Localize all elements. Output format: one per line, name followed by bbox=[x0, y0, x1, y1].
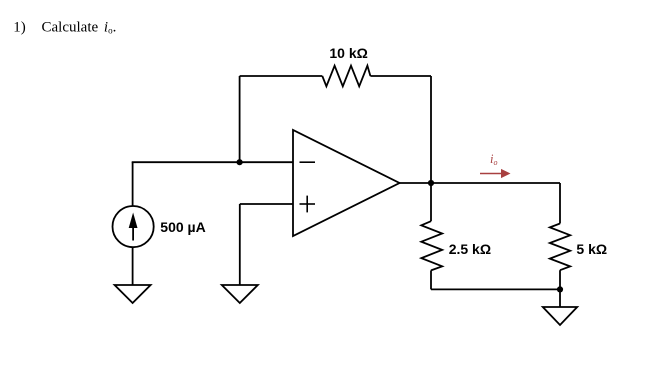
resistor 10 kΩ (feedback) bbox=[322, 66, 370, 87]
resistor 2.5 kΩ bbox=[421, 221, 442, 270]
wire: current source bottom lead bbox=[132, 247, 134, 285]
svg-text:1): 1) bbox=[13, 20, 26, 36]
op-amp U1 bbox=[293, 130, 400, 236]
wire: 2.5k top lead bbox=[430, 183, 432, 221]
wire: 2.5k bottom lead bbox=[430, 270, 432, 289]
problem text "1) Calculate io." bbox=[13, 20, 116, 36]
wire: inverting input horizontal bbox=[132, 161, 293, 163]
wire: top feedback right segment bbox=[370, 75, 431, 77]
wire: non-inverting input vertical to ground bbox=[239, 204, 241, 285]
wire: feedback left vertical bbox=[239, 76, 241, 162]
current label io (red) bbox=[480, 152, 511, 178]
ground (bottom) bbox=[543, 307, 577, 325]
node: bottom junction bbox=[557, 286, 563, 292]
current source 500 µA bbox=[113, 206, 154, 247]
wire: non-inverting input horizontal bbox=[240, 203, 293, 205]
wire: stub to ground bbox=[559, 289, 561, 307]
wire: top feedback left segment bbox=[240, 75, 323, 77]
wire: output horizontal bbox=[400, 182, 561, 184]
wire: feedback right vertical bbox=[430, 76, 432, 183]
wire: 5k bottom lead bbox=[559, 270, 561, 289]
ground (current source) bbox=[115, 285, 151, 303]
svg-text:Calculate io.: Calculate io. bbox=[42, 20, 117, 36]
svg-text:5 kΩ: 5 kΩ bbox=[576, 241, 607, 257]
wire: 5k top lead bbox=[559, 183, 561, 224]
svg-text:10 kΩ: 10 kΩ bbox=[329, 45, 367, 61]
node: output junction bbox=[428, 180, 434, 186]
resistor 5 kΩ bbox=[550, 224, 570, 271]
wire: current source top lead bbox=[132, 162, 134, 206]
svg-text:2.5 kΩ: 2.5 kΩ bbox=[449, 241, 491, 257]
wire: bottom horizontal bbox=[431, 288, 560, 290]
ground (non-inverting input) bbox=[222, 285, 258, 303]
node: inverting input junction bbox=[237, 159, 243, 165]
svg-text:500 µA: 500 µA bbox=[160, 219, 205, 235]
